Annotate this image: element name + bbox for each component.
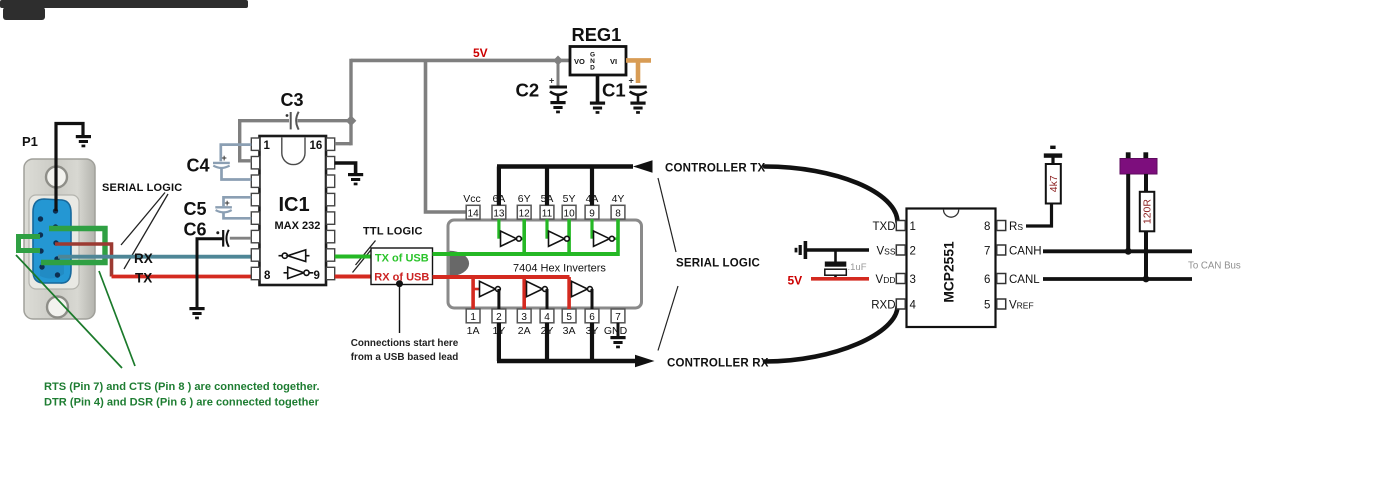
svg-text:IC1: IC1 <box>279 194 310 216</box>
svg-text:VO: VO <box>574 57 585 66</box>
svg-text:TXD: TXD <box>873 221 896 233</box>
svg-text:.1uF: .1uF <box>848 262 867 273</box>
wire TX (red to MAX232 pin8) <box>112 275 252 279</box>
svg-text:12: 12 <box>519 208 531 219</box>
svg-text:DTR (Pin 4) and DSR (Pin 6 ) a: DTR (Pin 4) and DSR (Pin 6 ) are connect… <box>44 397 320 409</box>
green jumper loop RTS-CTS (small) <box>19 237 41 251</box>
svg-text:9: 9 <box>589 208 595 219</box>
svg-text:C1: C1 <box>602 80 626 101</box>
callout line to RX of USB wire <box>353 248 373 273</box>
ground (right of IC1) <box>348 173 363 185</box>
wire red RX of USB to 7404 inputs <box>433 275 570 279</box>
ground (C1) <box>630 102 645 114</box>
wire purple left lead to CANH <box>1126 174 1130 251</box>
svg-text:8: 8 <box>984 221 990 233</box>
callout line to TX <box>124 194 168 269</box>
svg-text:7: 7 <box>984 245 990 257</box>
svg-text:3A: 3A <box>563 325 576 337</box>
inverter 6 (top row 1) <box>501 231 522 246</box>
7404 top pin labels <box>463 193 624 205</box>
red wires bottom inverter inputs <box>473 277 569 309</box>
IC1 pin boxes left <box>251 138 259 280</box>
wire CANL <box>1043 277 1192 281</box>
wire TX (dark red from DB9) <box>55 244 112 277</box>
arrowhead (controller TX, pointing left) <box>633 160 653 173</box>
svg-text:3: 3 <box>521 312 527 323</box>
inverter 5 (top row 2) <box>549 231 570 246</box>
wire 120R to CANL <box>1144 231 1148 279</box>
black wires bottom inverter outputs to pins <box>499 289 592 309</box>
svg-text:CANL: CANL <box>1009 274 1040 286</box>
wire CANH <box>1043 249 1192 253</box>
svg-text:5V: 5V <box>473 46 488 60</box>
svg-text:GND: GND <box>604 325 628 337</box>
ground (C6) <box>189 307 204 319</box>
svg-text:C3: C3 <box>281 90 304 110</box>
svg-text:5: 5 <box>566 312 572 323</box>
svg-text:6: 6 <box>589 312 595 323</box>
capacitor C1 <box>629 76 647 102</box>
wire gray C3 loop (pin2 to rail) <box>238 121 351 161</box>
svg-text:VI: VI <box>610 57 617 66</box>
callout line to note <box>399 284 401 333</box>
wire 5V riser down to 7404 Vcc <box>426 60 467 212</box>
svg-text:Vcc: Vcc <box>463 193 481 205</box>
capacitor .1uF <box>825 250 847 279</box>
resistor R1 4k7 <box>1046 164 1061 204</box>
svg-text:8: 8 <box>615 208 621 219</box>
regulator REG1 box <box>570 47 626 76</box>
svg-text:C6: C6 <box>184 220 207 240</box>
svg-text:13: 13 <box>493 208 505 219</box>
svg-text:1: 1 <box>910 221 916 233</box>
node (CANL junction) <box>1143 276 1150 283</box>
svg-text:D: D <box>590 65 595 72</box>
svg-text:To CAN Bus: To CAN Bus <box>1188 261 1241 272</box>
svg-text:SERIAL LOGIC: SERIAL LOGIC <box>102 182 182 194</box>
svg-text:VDD: VDD <box>876 274 896 286</box>
wire curve controller TX to MCP2551 TXD <box>765 167 898 223</box>
svg-text:4: 4 <box>910 299 917 311</box>
svg-text:MAX 232: MAX 232 <box>275 220 321 232</box>
wire controller TX bus (top) <box>497 167 633 206</box>
connector P1 (DB9 female photo) <box>24 159 95 319</box>
7404 top pin boxes 14..8 <box>466 205 625 219</box>
green callout line 2 <box>99 271 135 366</box>
junction (C3 rail / 5V riser) <box>346 115 357 126</box>
svg-text:+: + <box>549 76 554 86</box>
svg-text:+: + <box>629 76 634 86</box>
svg-text:RX: RX <box>134 251 153 266</box>
CAN bus termination (purple component) <box>1120 152 1157 174</box>
DB9 pin holes <box>38 208 60 277</box>
wire 5V to VDD <box>811 277 869 281</box>
svg-text:SERIAL LOGIC: SERIAL LOGIC <box>676 258 760 270</box>
svg-text:5: 5 <box>984 299 990 311</box>
top-left scan artifact bar <box>0 0 248 20</box>
inverter 1 (bottom row 1) <box>480 281 501 296</box>
wire 4k7 to ground above <box>1051 158 1054 165</box>
capacitor C3 <box>286 112 299 130</box>
callout line from controller TX <box>658 178 676 252</box>
IC MCP2551 body <box>907 209 996 328</box>
svg-text:2: 2 <box>910 245 916 257</box>
capacitor C5 with wires (pin4 to pin5) <box>215 197 251 218</box>
svg-text:16: 16 <box>310 140 323 152</box>
ground (REG1) <box>590 102 605 114</box>
inverter symbol (left-pointing) inside IC1 <box>279 250 310 262</box>
resistor R2 120R <box>1140 192 1155 232</box>
svg-text:7404 Hex Inverters: 7404 Hex Inverters <box>513 263 606 275</box>
svg-text:4k7: 4k7 <box>1048 175 1060 192</box>
wire VSS decoupling <box>806 248 869 251</box>
svg-text:5V: 5V <box>788 274 803 288</box>
svg-text:9: 9 <box>314 270 320 282</box>
capacitor C2 <box>549 60 567 101</box>
wire orange REG1 VI <box>626 60 651 83</box>
svg-text:RS: RS <box>1009 221 1023 233</box>
svg-text:CANH: CANH <box>1009 245 1042 257</box>
wire IC1 right pin2 to ground <box>335 163 356 173</box>
callout line from controller RX <box>658 286 678 351</box>
MCP2551 pin boxes right <box>997 221 1006 310</box>
capacitor C4 with wires (pin1 to pin3) <box>213 145 251 180</box>
wire gray pin16 to 5V rail <box>335 59 351 146</box>
label box TX of USB / RX of USB <box>371 248 433 285</box>
svg-text:TX of USB: TX of USB <box>375 253 429 265</box>
green jumper loop DTR-DSR (large) <box>41 229 105 263</box>
svg-text:1: 1 <box>264 140 271 152</box>
wire green TX of USB to 7404 outputs <box>433 252 620 256</box>
pin numbers 8-5 <box>984 221 990 311</box>
svg-text:TX: TX <box>135 271 152 286</box>
svg-text:4Y: 4Y <box>612 193 625 205</box>
svg-text:RXD: RXD <box>871 299 895 311</box>
ground (P1) <box>76 135 91 147</box>
svg-text:C4: C4 <box>187 156 210 176</box>
op-amp/IC IC1 MAX232 body <box>260 136 327 285</box>
green wires top inverters <box>499 219 618 256</box>
MCP2551 pin boxes left <box>896 221 905 310</box>
7404 bottom pin boxes 1..7 <box>466 309 625 323</box>
svg-text:C2: C2 <box>516 80 540 101</box>
inverter 2 (bottom row 2) <box>527 281 548 296</box>
7404 notch <box>450 251 469 276</box>
svg-text:11: 11 <box>542 208 553 219</box>
svg-text:10: 10 <box>564 208 576 219</box>
svg-text:+: + <box>225 198 230 208</box>
svg-text:REG1: REG1 <box>572 24 622 45</box>
svg-text:1: 1 <box>470 312 476 323</box>
svg-text:7: 7 <box>615 312 621 323</box>
callout line to TX of USB wire <box>356 241 376 266</box>
svg-text:2: 2 <box>496 312 502 323</box>
svg-text:120R: 120R <box>1142 199 1154 225</box>
7404 top pin numbers <box>468 208 622 219</box>
IC 7404 body <box>448 220 642 308</box>
inverter 4 (top row 3) <box>594 231 615 246</box>
svg-text:+: + <box>222 153 227 163</box>
svg-text:6: 6 <box>984 274 990 286</box>
svg-text:MCP2551: MCP2551 <box>942 241 957 303</box>
wire red IC1 pin9 to label box <box>335 275 371 279</box>
svg-text:CONTROLLER TX: CONTROLLER TX <box>665 163 765 175</box>
svg-text:2A: 2A <box>518 325 531 337</box>
svg-text:8: 8 <box>264 270 271 282</box>
svg-text:Connections start here: Connections start here <box>351 338 459 349</box>
wire REG1 GND to ground <box>596 75 600 102</box>
svg-text:5Y: 5Y <box>563 193 576 205</box>
7404 bottom pin labels <box>467 325 628 337</box>
svg-text:VSS: VSS <box>876 245 895 257</box>
svg-text:6Y: 6Y <box>518 193 531 205</box>
arrowhead (controller RX, pointing right) <box>635 355 655 368</box>
wire DB9 pin1 to ground <box>56 124 83 212</box>
svg-text:4: 4 <box>544 312 550 323</box>
wire green IC1 pin9row to label box <box>335 255 371 259</box>
capacitor C6 (pin6 to ground) <box>196 230 252 307</box>
svg-text:TTL LOGIC: TTL LOGIC <box>363 226 423 238</box>
node dot under label box <box>396 280 403 287</box>
MCP2551 notch <box>944 210 959 218</box>
node (CANH junction) <box>1125 248 1132 255</box>
svg-text:3: 3 <box>910 274 916 286</box>
inverter 3 (bottom row 3) <box>572 281 593 296</box>
7404 bottom pin numbers <box>470 312 621 323</box>
wire Rs to 4k7 <box>1026 204 1052 227</box>
ground (inverted, above 4k7) <box>1044 146 1062 158</box>
inverter symbol (right-pointing) inside IC1 <box>284 267 314 278</box>
pin numbers 1-4 <box>910 221 917 311</box>
wire RX (teal to MAX232 pin7) <box>58 255 251 259</box>
junction (C2 tap on rail) <box>553 56 563 66</box>
svg-text:C5: C5 <box>184 199 207 219</box>
svg-text:14: 14 <box>468 208 480 219</box>
callout line to RX <box>121 193 165 246</box>
wire controller RX bus (bottom) <box>497 323 636 361</box>
svg-text:CONTROLLER RX: CONTROLLER RX <box>667 358 769 370</box>
svg-text:1A: 1A <box>467 325 480 337</box>
ground (rotated, VSS) <box>795 241 808 259</box>
svg-text:P1: P1 <box>22 134 38 149</box>
svg-text:from a USB based lead: from a USB based lead <box>351 352 459 363</box>
ground (7404 pin7) <box>610 336 625 348</box>
ground (C2) <box>550 101 565 113</box>
wire purple right lead to 120R <box>1144 174 1148 192</box>
svg-text:RTS (Pin 7) and CTS (Pin 8 ) a: RTS (Pin 7) and CTS (Pin 8 ) are connect… <box>44 381 320 393</box>
wire 5V rail (gray) <box>351 59 570 63</box>
wire 7404 GND pin to ground <box>617 323 620 336</box>
svg-text:VREF: VREF <box>1009 299 1034 311</box>
IC1 pin boxes right <box>326 138 334 280</box>
wire curve MCP2551 RXD to controller RX <box>765 307 898 362</box>
green callout line 1 <box>16 255 122 368</box>
